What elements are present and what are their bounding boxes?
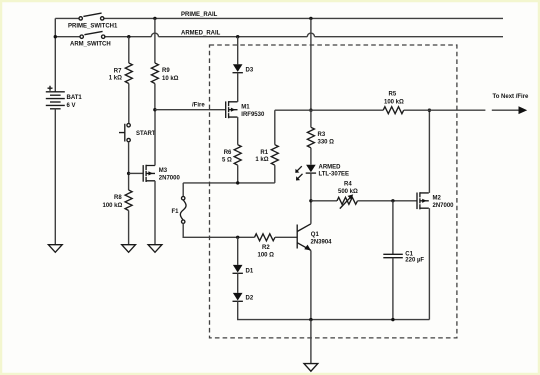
junction D1 top — [236, 236, 239, 239]
junction R7 top on armed rail — [127, 35, 130, 38]
svg-text:IRF9530: IRF9530 — [241, 112, 265, 118]
junction on armed rail at left — [54, 35, 57, 38]
ground M3 — [148, 245, 162, 253]
svg-text:1 kΩ: 1 kΩ — [109, 75, 122, 81]
svg-text:R1: R1 — [260, 150, 268, 156]
svg-text:6 V: 6 V — [67, 103, 76, 109]
battery BAT1 — [46, 86, 65, 109]
svg-text:R2: R2 — [262, 245, 270, 251]
junction R9 top on prime rail — [153, 17, 156, 20]
switch PRIME_SWITCH1 — [79, 13, 104, 20]
switch START (pushbutton) — [119, 124, 130, 142]
svg-text:LTL-307EE: LTL-307EE — [319, 172, 350, 178]
svg-text:ARM_SWITCH: ARM_SWITCH — [70, 42, 111, 48]
wire hop over R3 column — [307, 33, 314, 37]
arrowhead To Next /Fire — [519, 106, 528, 114]
wire START to junction — [128, 142, 130, 190]
LED ARMED LTL-307EE — [306, 165, 316, 173]
wire prime rail down to R9 (passes hop) — [154, 18, 156, 63]
resistor R9 — [151, 63, 158, 84]
svg-text:2N3904: 2N3904 — [311, 240, 333, 246]
svg-text:5 Ω: 5 Ω — [222, 157, 232, 163]
wire R7 to START — [128, 84, 130, 124]
wire R6 to mid wire — [237, 165, 239, 183]
junction C1 on bottom rail — [391, 318, 394, 321]
svg-text:100 kΩ: 100 kΩ — [384, 99, 404, 105]
svg-text:BAT1: BAT1 — [67, 95, 83, 101]
wire R2 to Q1 base — [275, 236, 297, 238]
junction R6 bottom — [236, 181, 239, 184]
transistor Q1 2N3904 — [297, 224, 311, 251]
wire M3 drain up to /Fire node — [154, 110, 156, 166]
wire Q1 emitter down to bottom rail — [310, 250, 312, 319]
svg-text:ARMED_RAIL: ARMED_RAIL — [181, 31, 221, 37]
svg-text:PRIME_RAIL: PRIME_RAIL — [181, 12, 218, 18]
resistor R5 — [383, 107, 404, 114]
resistor R1 — [271, 145, 278, 166]
wire M2 drain up to R5 run — [428, 110, 430, 193]
transistor M3 2N7000 — [143, 165, 155, 182]
svg-text:500 kΩ: 500 kΩ — [338, 189, 358, 195]
wire hop over R9 column — [151, 33, 158, 37]
wire ARMED_RAIL with hops at x=155 and x=311 — [55, 36, 503, 38]
svg-text:R7: R7 — [114, 68, 122, 74]
switch ARM_SWITCH — [80, 31, 105, 38]
svg-text:D1: D1 — [246, 268, 254, 274]
junction C1 top — [391, 199, 394, 202]
svg-text:R8: R8 — [114, 195, 122, 201]
node /Fire junction — [153, 108, 156, 111]
resistor R2 — [255, 234, 276, 241]
capacitor C1 — [383, 254, 403, 257]
svg-text:F1: F1 — [172, 209, 180, 215]
junction R4 node — [309, 199, 312, 202]
svg-text:100 Ω: 100 Ω — [258, 253, 275, 259]
resistor R3 — [307, 127, 314, 148]
svg-text:220 µF: 220 µF — [405, 257, 424, 263]
svg-text:ARMED: ARMED — [319, 165, 342, 171]
wire R3 to LED — [310, 148, 312, 165]
wire R1 to mid wire — [274, 165, 276, 183]
junction gate feed — [127, 172, 130, 175]
wire armed rail to D3 — [237, 37, 239, 65]
connector F1 — [180, 197, 186, 224]
potentiometer R4 — [337, 197, 358, 204]
diode D3 — [233, 64, 243, 72]
junction M2 drain on R5 run — [428, 109, 431, 112]
resistor R7 — [125, 63, 132, 84]
svg-text:START: START — [136, 131, 156, 137]
svg-text:R4: R4 — [344, 182, 352, 188]
wire battery column bottom — [54, 109, 56, 245]
wire D3 to M1 drain — [237, 73, 239, 102]
svg-text:PRIME_SWITCH1: PRIME_SWITCH1 — [68, 24, 118, 30]
wire C1 bottom — [392, 258, 394, 320]
svg-text:R9: R9 — [162, 68, 170, 74]
ground main — [304, 364, 318, 372]
svg-text:M2: M2 — [433, 195, 442, 201]
svg-text:100 kΩ: 100 kΩ — [103, 203, 123, 209]
svg-text:To Next /Fire: To Next /Fire — [493, 94, 530, 100]
resistor R6 — [234, 145, 241, 166]
wire junction to M3 gate — [129, 172, 144, 174]
svg-text:1 kΩ: 1 kΩ — [255, 157, 268, 163]
svg-text:R5: R5 — [389, 92, 397, 98]
svg-text:D3: D3 — [246, 67, 254, 73]
wire mid horizontal (F1 top to R1) — [183, 182, 275, 184]
svg-text:R6: R6 — [224, 150, 232, 156]
svg-text:/Fire: /Fire — [192, 102, 205, 108]
diode D1 — [233, 265, 243, 273]
junction emitter/bottom rail — [309, 318, 312, 321]
svg-text:330 Ω: 330 Ω — [318, 139, 335, 145]
wire C1 top — [392, 201, 394, 255]
wire to F1 top pin — [182, 183, 184, 197]
svg-text:10 kΩ: 10 kΩ — [162, 76, 179, 82]
svg-text:D2: D2 — [246, 296, 254, 302]
wire M2 source down to bottom rail — [428, 208, 430, 319]
wire output arrow — [492, 109, 519, 111]
wire PRIME_RAIL — [55, 17, 503, 19]
wire R8 to ground — [128, 211, 130, 245]
wire battery column top — [54, 18, 56, 91]
svg-text:M3: M3 — [159, 168, 168, 174]
wire R5 to box edge and out — [404, 109, 486, 111]
wire junction to D1 — [237, 237, 239, 265]
dashed box — [210, 45, 457, 338]
wire Q1 collector up to LED node — [310, 201, 312, 224]
wire prime rail down to R5-run (passes hop over armed rail) — [310, 18, 312, 110]
junction on R5 run — [309, 109, 312, 112]
wire R5-run corner down to R1 — [274, 110, 276, 145]
wire M3 source to ground — [154, 181, 156, 245]
resistor R8 — [125, 190, 132, 211]
wire down to R3 — [310, 110, 312, 127]
wire D2 to bottom rail — [238, 301, 430, 319]
diode D2 — [233, 293, 243, 301]
wire R4 to M2 gate — [358, 200, 418, 202]
svg-text:M1: M1 — [241, 104, 250, 110]
wire LED to R4 node — [310, 173, 312, 201]
svg-text:Q1: Q1 — [311, 232, 320, 238]
wire bottom rail to ground — [310, 320, 312, 364]
svg-text:R3: R3 — [318, 132, 326, 138]
wire R1 corner to R5 — [275, 109, 383, 111]
wire D1 to D2 — [237, 273, 239, 293]
wire R9 to /Fire junction — [154, 84, 156, 110]
junction R3 top on prime rail — [309, 17, 312, 20]
wire LED node to R4 — [311, 200, 337, 202]
wire armed rail to R7 — [128, 37, 130, 63]
svg-text:2N7000: 2N7000 — [159, 176, 181, 182]
transistor M2 2N7000 — [417, 192, 429, 209]
transistor M1 IRF9530 — [226, 101, 238, 118]
wire F1 bottom pin down and right — [183, 223, 254, 237]
wire /Fire to M1 gate — [155, 109, 226, 111]
wire M1 source to R6 — [237, 117, 239, 145]
ground R8 — [122, 245, 136, 253]
junction D3 top on armed rail — [236, 35, 239, 38]
svg-text:2N7000: 2N7000 — [433, 203, 455, 209]
ground battery — [48, 245, 62, 253]
